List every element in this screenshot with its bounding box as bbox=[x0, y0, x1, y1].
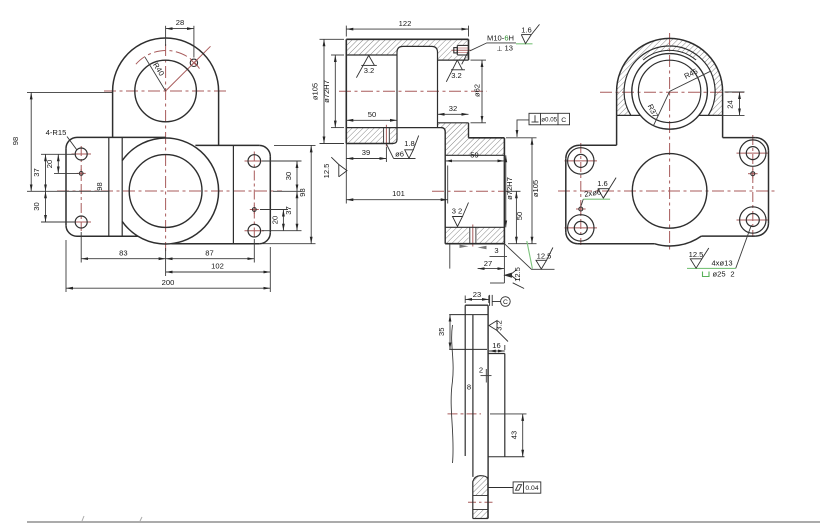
lower cylinder top edge bbox=[469, 137, 505, 139]
M10-6H label bbox=[470, 43, 516, 51]
svg-text:C: C bbox=[561, 117, 566, 124]
svg-text:27: 27 bbox=[484, 259, 492, 268]
svg-text:ø105: ø105 bbox=[311, 83, 320, 100]
svg-text:4-R15: 4-R15 bbox=[46, 128, 67, 137]
roughness 3.2 right bore bbox=[446, 51, 469, 82]
hole BL inner bbox=[574, 221, 587, 234]
left edge upper bbox=[464, 305, 466, 456]
dim Ø62 bbox=[471, 60, 487, 123]
bottom tick bbox=[490, 282, 504, 284]
dim 98 left bbox=[27, 92, 112, 191]
red cross in small hole bbox=[191, 60, 197, 66]
centerline: right hole column bbox=[752, 135, 754, 237]
dim 20 right bbox=[260, 210, 288, 231]
feature control frame ⊥ Ø0.05 C bbox=[529, 113, 570, 125]
web edge line B bbox=[121, 137, 123, 236]
svg-text:35: 35 bbox=[437, 328, 446, 336]
slot left wall with fillets bbox=[393, 46, 403, 143]
right end lower step bbox=[468, 123, 470, 138]
bottom edge of boss bbox=[473, 518, 488, 520]
central bore circle bbox=[632, 154, 707, 229]
lug right side bbox=[722, 91, 724, 115]
plate left edge bbox=[65, 148, 67, 225]
hatch: lower cylinder bottom band bbox=[445, 227, 504, 243]
boss right side bbox=[218, 91, 220, 145]
svg-text:3.2: 3.2 bbox=[451, 71, 462, 80]
crosshair bottom-left hole bbox=[72, 221, 92, 223]
svg-text:⊥: ⊥ bbox=[497, 46, 503, 53]
svg-text:98: 98 bbox=[298, 188, 307, 196]
boss inner lines bbox=[473, 495, 488, 497]
Ø6 leader and label bbox=[386, 144, 415, 159]
dim 16 bbox=[489, 345, 505, 351]
slot top edge bbox=[403, 45, 432, 47]
crosshair top-right hole bbox=[245, 160, 265, 162]
centerline: left hole column bbox=[80, 146, 82, 231]
roughness 3.2 lower bore bbox=[453, 203, 469, 227]
dim 24 bbox=[710, 92, 745, 115]
dim 59 bbox=[445, 157, 504, 165]
body left side bbox=[616, 115, 618, 145]
lower cylinder bottom edge bbox=[445, 243, 504, 245]
dim 43 bbox=[490, 414, 527, 457]
svg-text:ø25: ø25 bbox=[712, 270, 725, 279]
roughness 3.2 right of top bbox=[489, 321, 508, 342]
hole TL inner bbox=[574, 154, 587, 167]
M10 thread lines red bbox=[458, 48, 469, 53]
lug left side bbox=[616, 91, 618, 115]
body right side bbox=[722, 115, 724, 137]
plate top-left corner bbox=[66, 137, 77, 148]
svg-text:50: 50 bbox=[368, 110, 376, 119]
dim 37 right bbox=[262, 191, 302, 230]
bore Ø62 bottom line bbox=[438, 122, 469, 124]
hole bottom-left bbox=[75, 216, 87, 228]
plate bottom edge right half bbox=[171, 243, 259, 245]
roughness 1.8 bbox=[405, 136, 419, 159]
dim Ø105 lower bbox=[506, 138, 537, 244]
plate right edge bbox=[269, 156, 271, 232]
crosshair bottom-right hole bbox=[245, 230, 265, 232]
crosshair TL hole bbox=[565, 160, 598, 162]
svg-text:43: 43 bbox=[510, 431, 519, 439]
dim 35 bbox=[449, 315, 451, 350]
svg-text:ø72H7: ø72H7 bbox=[505, 177, 514, 200]
centerline: boss section bbox=[468, 501, 494, 503]
dim 98 right bbox=[262, 145, 316, 243]
dim Ø72H7 left bbox=[331, 55, 344, 128]
white gap for bottom band hole bbox=[469, 227, 477, 244]
crosshair top-left hole bbox=[72, 153, 92, 155]
svg-text:23: 23 bbox=[473, 290, 481, 299]
hole bottom-right bbox=[248, 224, 261, 237]
flange top edge bbox=[488, 353, 505, 355]
svg-text:ø62: ø62 bbox=[472, 84, 481, 97]
centerline: bottom band hole bbox=[472, 225, 474, 247]
cross left dot bbox=[576, 204, 586, 214]
bottom band hole side lines bbox=[470, 227, 476, 243]
dim 83 bbox=[81, 232, 165, 276]
Ø62 circle bbox=[638, 60, 700, 122]
lug step right bbox=[699, 114, 723, 116]
top cylinder left end face bbox=[345, 39, 347, 143]
inner edge bbox=[472, 315, 474, 477]
dim 122 bbox=[346, 26, 468, 37]
hole BR outer bbox=[740, 207, 766, 233]
inner arc r41 bbox=[643, 50, 696, 60]
dim 23 bbox=[465, 296, 489, 304]
svg-text:8: 8 bbox=[467, 383, 471, 392]
svg-text:200: 200 bbox=[162, 278, 175, 287]
svg-text:98: 98 bbox=[95, 182, 104, 190]
dim 101 bbox=[346, 166, 447, 204]
svg-text:ø0.05: ø0.05 bbox=[541, 117, 557, 124]
plate left edge bbox=[565, 159, 567, 232]
cross right small dot bbox=[250, 205, 259, 214]
svg-text:12.5: 12.5 bbox=[537, 251, 552, 260]
lug outer arc bbox=[617, 38, 723, 91]
central cylinder outer circle (clipped left) bbox=[122, 138, 218, 244]
boss left side bbox=[112, 91, 114, 137]
roughness 12.5 rotated at bottom step bbox=[505, 270, 524, 289]
plate top edge left half bbox=[77, 136, 166, 138]
centerline: main horizontal axis bbox=[57, 190, 282, 192]
svg-text:28: 28 bbox=[176, 18, 184, 27]
leader 4xØ13 bbox=[736, 225, 752, 268]
boss section outline bbox=[473, 476, 488, 519]
svg-text:12.5: 12.5 bbox=[513, 267, 522, 282]
svg-text:122: 122 bbox=[399, 19, 412, 28]
roughness 12.5 left face bbox=[331, 157, 347, 177]
lower cylinder right edge bbox=[503, 138, 505, 244]
hatch: bottom boss section bbox=[473, 476, 488, 496]
top edge bbox=[465, 304, 488, 306]
stray arrows under bottom edge bbox=[460, 245, 469, 248]
dot left bbox=[79, 172, 83, 176]
centerline: left hole column bbox=[580, 143, 582, 245]
svg-text:30: 30 bbox=[284, 172, 293, 180]
crosshair BL hole bbox=[565, 227, 598, 229]
R40 leader bbox=[145, 57, 166, 91]
svg-text:ø105: ø105 bbox=[531, 180, 540, 197]
small hole on bolt circle bbox=[190, 59, 197, 66]
centerline: main horizontal axis bbox=[558, 190, 777, 192]
roughness 12.5 bottom bbox=[690, 248, 709, 268]
centerline: right hole column bbox=[253, 152, 255, 240]
centerline: vertical axis bbox=[669, 33, 671, 252]
flange bottom edge bbox=[488, 456, 525, 458]
svg-text:59: 59 bbox=[470, 151, 478, 160]
svg-text:2: 2 bbox=[730, 270, 734, 279]
svg-text:1.6: 1.6 bbox=[521, 25, 532, 34]
plate top-right corner bbox=[259, 145, 270, 156]
label 1.6 / 2xØ6 bbox=[598, 178, 616, 199]
slot right wall with fillet bbox=[432, 46, 438, 127]
centerline: boss vertical axis bbox=[165, 44, 167, 251]
svg-text:20: 20 bbox=[45, 160, 54, 168]
svg-text:M10-6H: M10-6H bbox=[487, 34, 514, 43]
fcf leader bbox=[517, 120, 529, 137]
bore Ø62 top line bbox=[438, 59, 469, 61]
lower shoulder line bbox=[449, 348, 487, 350]
dot right bbox=[252, 208, 256, 212]
web edge line C bbox=[232, 145, 234, 243]
counterbore Ø25 green bbox=[703, 272, 710, 277]
svg-text:39: 39 bbox=[362, 148, 370, 157]
svg-text:ø72H7: ø72H7 bbox=[322, 80, 331, 103]
plate right bottom edge bbox=[701, 235, 755, 237]
svg-text:3.2: 3.2 bbox=[364, 66, 375, 75]
svg-text:101: 101 bbox=[392, 189, 405, 198]
roughness 1.6 top bbox=[521, 24, 539, 43]
centerline: M10 hole bbox=[452, 49, 471, 51]
crosshair BR hole bbox=[737, 219, 770, 221]
plate BL corner bbox=[566, 232, 578, 244]
svg-text:ø6: ø6 bbox=[395, 149, 404, 158]
svg-text:32: 32 bbox=[449, 104, 457, 113]
leader to 12.5 at corner bbox=[504, 244, 554, 270]
white gap for M10 hole bbox=[452, 45, 469, 56]
centerline: bottom view axis bbox=[448, 413, 482, 415]
svg-text:102: 102 bbox=[211, 262, 224, 271]
hatch: bottom wall band bbox=[346, 128, 397, 144]
central bore circle bbox=[129, 155, 202, 228]
bore Ø72H7 bottom line bbox=[346, 127, 441, 129]
boss outer semicircle bbox=[113, 38, 219, 91]
roughness 12.5 on corner leader bbox=[536, 248, 553, 270]
svg-text:2: 2 bbox=[479, 366, 483, 375]
plate left half: top edge bbox=[579, 144, 616, 146]
svg-text:16: 16 bbox=[492, 341, 500, 350]
svg-text:12.5: 12.5 bbox=[689, 250, 704, 259]
bore Ø72H7 top line bbox=[346, 54, 397, 56]
roughness 3.2 left bore bbox=[356, 55, 376, 77]
svg-text:37: 37 bbox=[32, 168, 41, 176]
svg-text:3 2: 3 2 bbox=[452, 207, 463, 216]
dim 30 right bbox=[262, 161, 302, 191]
green tick line at corner bbox=[527, 241, 533, 269]
R37 circle bbox=[632, 54, 708, 130]
cross left small dot bbox=[77, 169, 86, 178]
plate bottom-left corner bbox=[66, 225, 77, 236]
svg-text:37: 37 bbox=[284, 206, 293, 214]
svg-text:3: 3 bbox=[494, 246, 498, 255]
svg-text:4xø13: 4xø13 bbox=[711, 259, 732, 268]
hatch: top sliver bbox=[640, 46, 698, 60]
hole top-right bbox=[248, 155, 261, 168]
svg-text:87: 87 bbox=[205, 248, 213, 257]
top cylinder bottom edge bbox=[346, 143, 393, 145]
step dim 27 bbox=[478, 268, 505, 270]
table top edge at page bottom bbox=[27, 516, 820, 522]
centerline: Ø6 hole bbox=[385, 125, 387, 147]
R37 leader bbox=[654, 91, 670, 125]
break line wavy bbox=[451, 325, 453, 463]
svg-text:83: 83 bbox=[119, 248, 127, 257]
hole BL outer bbox=[568, 215, 594, 241]
dim 28 bbox=[166, 26, 194, 58]
centerline: boss horizontal axis bbox=[104, 90, 227, 92]
red diagonal through small hole bbox=[166, 46, 211, 91]
svg-text:C: C bbox=[503, 299, 508, 306]
flatness frame 0.04 bbox=[488, 482, 541, 493]
plate right half: top edge bbox=[723, 137, 756, 139]
web edge line A bbox=[108, 137, 110, 236]
dim 87 bbox=[166, 239, 255, 263]
lower bore top line bbox=[445, 154, 504, 156]
hole TR inner bbox=[746, 147, 759, 160]
dot left bbox=[579, 207, 583, 211]
plate TL corner bbox=[566, 145, 580, 159]
svg-text:50: 50 bbox=[515, 212, 524, 220]
centerline: lug horizontal axis bbox=[600, 91, 744, 93]
shoulder line bbox=[449, 314, 488, 316]
R45 circle arc bbox=[624, 46, 715, 115]
hatch: lug ring section bbox=[617, 38, 723, 115]
hatch: top wall band bbox=[346, 39, 468, 60]
dim 2 tick bbox=[481, 375, 492, 377]
top cylinder right end face upper bbox=[468, 39, 470, 60]
top cylinder top edge bbox=[346, 38, 468, 40]
white gap for lower small hole Ø6 bbox=[383, 127, 391, 143]
flange right edge bbox=[504, 354, 506, 457]
central boss bottom arc bbox=[654, 236, 701, 246]
dim Ø105 left bbox=[320, 39, 345, 143]
svg-text:13: 13 bbox=[505, 44, 513, 53]
plate right edge bbox=[768, 151, 770, 224]
green thread line bbox=[516, 43, 533, 45]
dim 39 bbox=[346, 144, 386, 204]
centerline: top cylinder axis bbox=[339, 90, 487, 92]
boss bore circle bbox=[135, 60, 197, 122]
plate bottom edge left half bbox=[77, 235, 138, 237]
hatch: merge wedge bbox=[438, 123, 505, 156]
cross right dot bbox=[748, 169, 758, 179]
lug step left bbox=[617, 114, 641, 116]
dim 37 left bbox=[41, 154, 75, 191]
dim 50 top bbox=[346, 119, 397, 121]
hole TR outer bbox=[740, 140, 766, 166]
centerline: lower cylinder axis bbox=[432, 190, 508, 192]
svg-text:1.8: 1.8 bbox=[404, 139, 415, 148]
right edge bbox=[487, 305, 489, 518]
svg-text:24: 24 bbox=[726, 100, 735, 108]
dot right bbox=[751, 172, 755, 176]
dim 102 bbox=[166, 247, 271, 292]
dim 20 left bbox=[54, 154, 79, 173]
svg-text:20: 20 bbox=[270, 216, 279, 224]
dim 200 bbox=[66, 240, 270, 292]
plate left bottom edge bbox=[578, 243, 654, 245]
green label line bbox=[687, 267, 736, 269]
R45 leader bbox=[670, 71, 711, 91]
svg-text:98: 98 bbox=[11, 137, 20, 145]
plate bottom-right corner bbox=[259, 233, 270, 244]
bolt circle R40 red arc bbox=[136, 51, 200, 69]
ext line below right corner bbox=[503, 244, 505, 283]
lower cylinder left edge with fillet bbox=[441, 128, 445, 244]
plate top edge right half bbox=[195, 144, 259, 146]
dim Ø72H7 lower bbox=[505, 155, 507, 227]
crosshair TR hole bbox=[737, 152, 770, 154]
svg-text:30: 30 bbox=[32, 202, 41, 210]
lower bore bottom line bbox=[445, 226, 504, 228]
plate BR corner bbox=[756, 224, 769, 237]
Ø6 hole side lines bbox=[384, 128, 390, 144]
step dim 3 bbox=[490, 255, 508, 257]
dim 30 left bbox=[41, 191, 75, 222]
M10 hole outline bbox=[454, 45, 469, 55]
svg-text:12.5: 12.5 bbox=[322, 164, 331, 179]
hole top-left bbox=[75, 148, 87, 160]
dim 50 lower bbox=[506, 191, 521, 243]
hole BR inner bbox=[746, 214, 759, 227]
plate TR corner bbox=[756, 138, 769, 151]
datum C with ticks bbox=[490, 295, 511, 306]
svg-text:0.04: 0.04 bbox=[525, 485, 538, 492]
dim 32 bbox=[438, 113, 469, 115]
hole TL outer bbox=[568, 148, 594, 174]
svg-text:3.2: 3.2 bbox=[495, 320, 504, 331]
